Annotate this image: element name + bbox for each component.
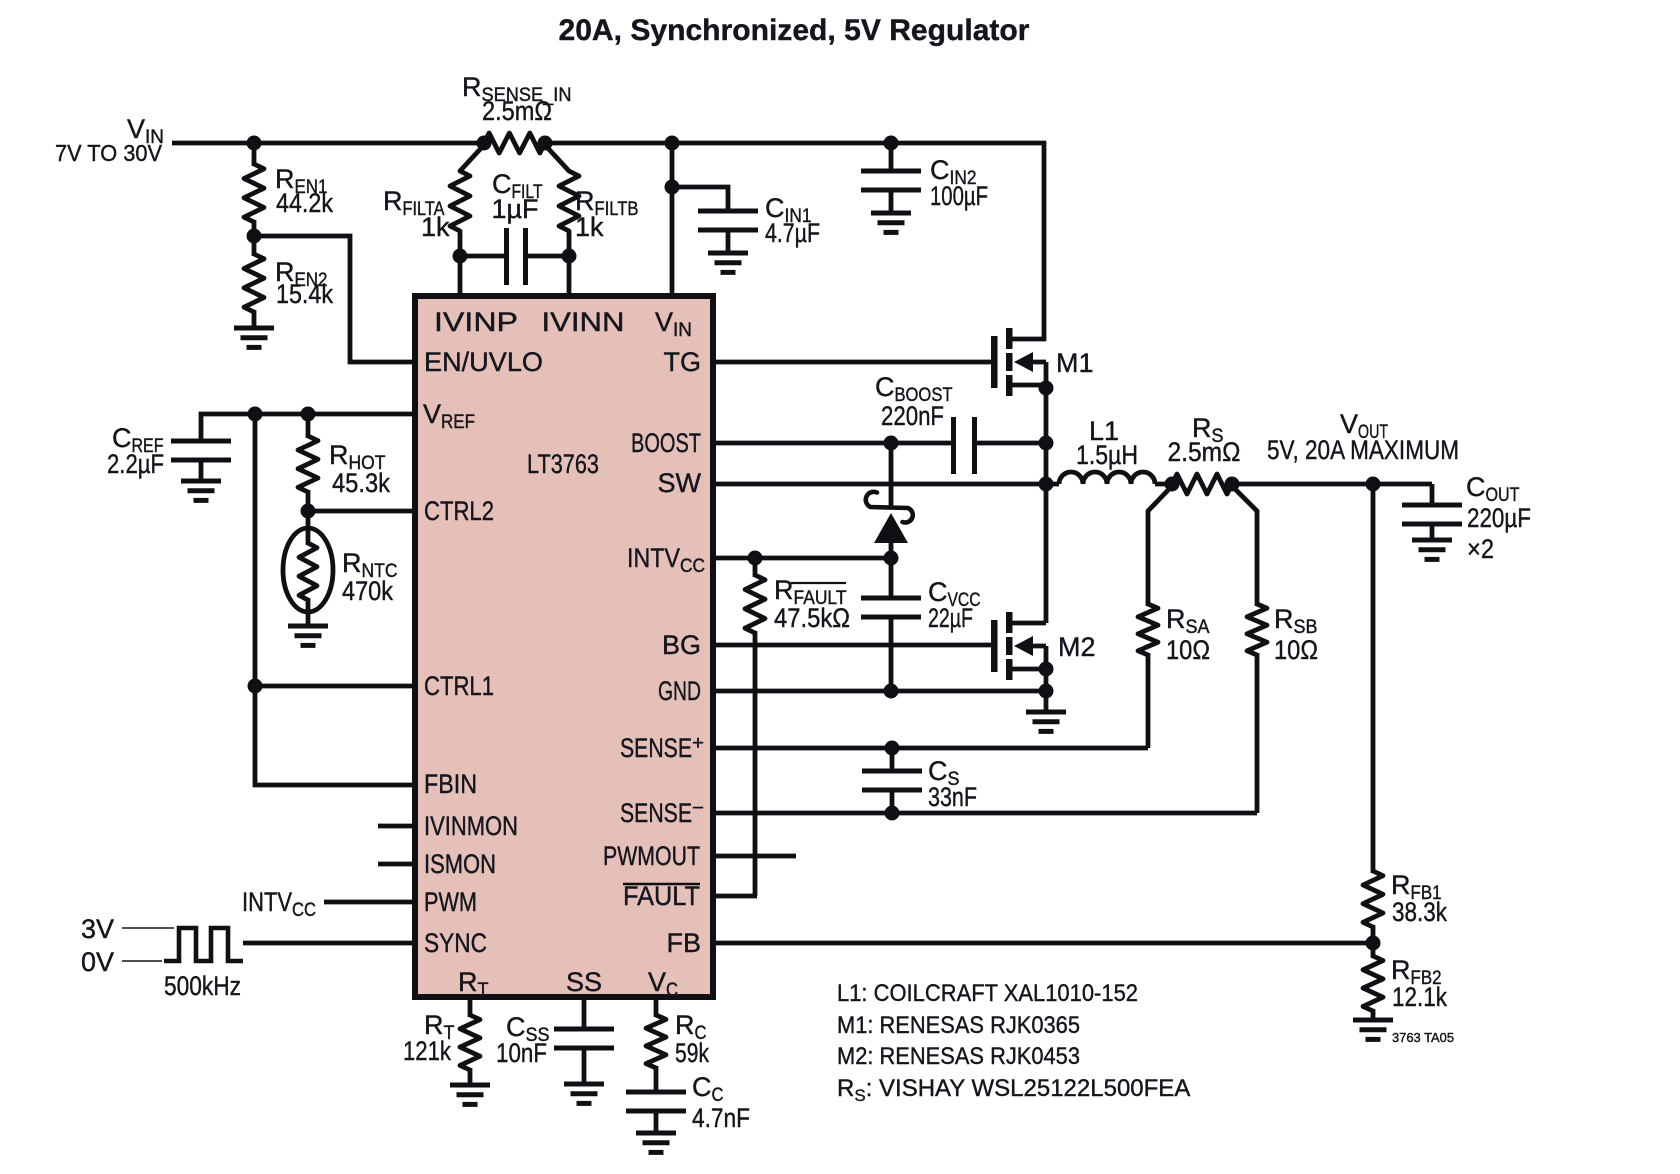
wire M1 drain drop bbox=[1042, 141, 1047, 341]
svg-text:CTRL1: CTRL1 bbox=[424, 671, 494, 701]
svg-text:SS: SS bbox=[566, 967, 602, 997]
resistor RFILTB bbox=[545, 145, 579, 258]
label 3V bbox=[81, 914, 114, 944]
wire VREF bbox=[201, 414, 415, 441]
label CBOOST bbox=[875, 372, 953, 431]
wire VOUT to RFB1 bbox=[1371, 484, 1376, 873]
label REN2 bbox=[275, 257, 333, 309]
svg-text:CTRL2: CTRL2 bbox=[424, 496, 494, 526]
wire FAULT bbox=[713, 894, 757, 899]
resistor RS bbox=[1172, 474, 1232, 494]
title bbox=[559, 14, 1030, 47]
svg-text:500kHz: 500kHz bbox=[164, 971, 241, 1001]
ground at M2 source bbox=[1026, 691, 1066, 731]
svg-text:SENSE−: SENSE− bbox=[620, 798, 704, 828]
label RHOT bbox=[329, 440, 390, 498]
junction CTRL1 bbox=[248, 679, 263, 694]
svg-text:38.3k: 38.3k bbox=[1392, 897, 1447, 927]
wire IVINP bbox=[458, 254, 463, 298]
pin label BG bbox=[662, 630, 701, 660]
wire VREF/CTRL1/FBIN bus bbox=[255, 414, 415, 785]
svg-text:IVINP: IVINP bbox=[434, 307, 518, 337]
resistor RFB2 bbox=[1363, 943, 1383, 1020]
capacitor CIN1 bbox=[698, 211, 758, 230]
label REN1 bbox=[275, 164, 333, 218]
svg-text:RSA: RSA bbox=[1166, 604, 1210, 638]
svg-text:0V: 0V bbox=[81, 947, 114, 977]
wire SYNC bbox=[243, 941, 415, 946]
svg-text:L1: COILCRAFT XAL1010-152: L1: COILCRAFT XAL1010-152 bbox=[837, 980, 1138, 1007]
svg-text:10Ω: 10Ω bbox=[1166, 635, 1210, 665]
label CIN1 bbox=[765, 193, 820, 248]
pin label IVINN bbox=[542, 307, 625, 337]
junction CBOOST right bbox=[1039, 436, 1054, 451]
pin label PWMOUT bbox=[603, 841, 700, 871]
label RT bbox=[403, 1010, 455, 1066]
junction node EN divider bbox=[247, 229, 262, 244]
label CIN2 bbox=[930, 155, 988, 211]
svg-text:3763 TA05: 3763 TA05 bbox=[1392, 1030, 1454, 1045]
svg-text:1k: 1k bbox=[575, 212, 604, 242]
svg-text:PWM: PWM bbox=[424, 887, 477, 917]
svg-text:IVINMON: IVINMON bbox=[424, 811, 518, 841]
junction dots on VIN rail bbox=[247, 136, 899, 151]
svg-text:44.2k: 44.2k bbox=[276, 188, 333, 218]
svg-text:INTVCC: INTVCC bbox=[242, 887, 316, 921]
label CSS bbox=[496, 1012, 550, 1068]
junction FB node bbox=[1366, 936, 1381, 951]
label L1 bbox=[1076, 416, 1138, 470]
wire CIN1 tap bbox=[672, 187, 728, 211]
junction INTVCC dots bbox=[748, 551, 899, 566]
pin label SS bbox=[566, 967, 602, 997]
junction CVCC gnd bbox=[884, 684, 899, 699]
label RFAULT bbox=[774, 575, 850, 633]
wire BOOST bbox=[713, 441, 954, 446]
capacitor CC bbox=[626, 1092, 686, 1133]
IC name label LT3763 bbox=[527, 449, 599, 479]
pin label VC bbox=[648, 967, 678, 1001]
label 500kHz bbox=[164, 971, 241, 1001]
wire FB bbox=[713, 941, 1375, 946]
resistor RFB1 bbox=[1363, 871, 1383, 943]
node VIN input label bbox=[55, 114, 164, 166]
label RFB1 bbox=[1391, 870, 1447, 927]
svg-text:SENSE+: SENSE+ bbox=[620, 733, 704, 763]
wire SENSE+ bbox=[713, 746, 1148, 751]
svg-text:PWMOUT: PWMOUT bbox=[603, 841, 700, 871]
junction dots CFILT bbox=[453, 249, 577, 264]
ground below RFB2 bbox=[1353, 1020, 1393, 1039]
ground below CC bbox=[636, 1133, 676, 1152]
svg-text:RS: VISHAY WSL25122L500FEA: RS: VISHAY WSL25122L500FEA bbox=[837, 1075, 1190, 1105]
capacitor CS bbox=[862, 748, 922, 813]
svg-text:15.4k: 15.4k bbox=[276, 279, 333, 309]
svg-text:TG: TG bbox=[664, 347, 702, 377]
svg-text:FAULT: FAULT bbox=[623, 881, 700, 911]
label CREF bbox=[107, 423, 164, 479]
svg-text:SYNC: SYNC bbox=[424, 928, 487, 958]
svg-text:3V: 3V bbox=[81, 914, 114, 944]
svg-text:ISMON: ISMON bbox=[424, 849, 496, 879]
svg-text:IVINN: IVINN bbox=[542, 307, 625, 337]
label CVCC bbox=[928, 577, 981, 633]
pin label TG bbox=[664, 347, 702, 377]
ground below CREF bbox=[181, 460, 221, 500]
label RS bbox=[1168, 413, 1241, 467]
ground below RT bbox=[450, 1085, 490, 1104]
wire M1-M2 leg bbox=[1044, 443, 1049, 623]
label RFILTB bbox=[575, 186, 639, 242]
diode DB anode wire bbox=[889, 443, 894, 560]
pin label IVINP bbox=[434, 307, 518, 337]
junction dots VREF line bbox=[248, 407, 316, 422]
junction RS right bbox=[1225, 477, 1240, 492]
resistor REN1 bbox=[244, 143, 264, 238]
label CS bbox=[928, 756, 977, 812]
square-wave sync source bbox=[122, 928, 243, 961]
pin label CTRL2 bbox=[424, 496, 494, 526]
pin label SENSE+ bbox=[620, 733, 704, 763]
svg-text:LT3763: LT3763 bbox=[527, 449, 599, 479]
pin label CTRL1 bbox=[424, 671, 494, 701]
wire VOUT bbox=[1232, 482, 1432, 487]
wire PWM bbox=[324, 900, 415, 905]
svg-text:2.2µF: 2.2µF bbox=[107, 449, 164, 479]
resistor RT bbox=[460, 997, 480, 1085]
svg-text:BG: BG bbox=[662, 630, 701, 660]
svg-text:1k: 1k bbox=[421, 212, 450, 242]
capacitor CREF bbox=[171, 441, 231, 460]
pin label SW bbox=[658, 468, 702, 498]
svg-text:45.3k: 45.3k bbox=[332, 468, 390, 498]
capacitor CVCC bbox=[861, 558, 921, 691]
pin label EN/UVLO bbox=[424, 347, 543, 377]
ground below COUT bbox=[1412, 540, 1452, 559]
svg-text:1µF: 1µF bbox=[491, 194, 538, 224]
label COUT bbox=[1466, 472, 1531, 564]
ground below CIN1 bbox=[708, 230, 748, 272]
pin label VIN (IC) bbox=[655, 307, 692, 341]
svg-text:59k: 59k bbox=[675, 1038, 709, 1068]
svg-text:10nF: 10nF bbox=[496, 1038, 547, 1068]
svg-text:12.1k: 12.1k bbox=[1392, 982, 1447, 1012]
svg-text:×2: ×2 bbox=[1467, 534, 1494, 564]
svg-text:RSB: RSB bbox=[1274, 604, 1318, 638]
label RFILTA bbox=[383, 186, 450, 242]
junction M1 source bbox=[1039, 381, 1054, 396]
wire CTRL1 bbox=[255, 684, 415, 689]
svg-text:GND: GND bbox=[658, 676, 701, 706]
label INTVCC at PWM bbox=[242, 887, 316, 921]
resistor RC bbox=[646, 997, 666, 1092]
pin label GND bbox=[658, 676, 701, 706]
wire ISMON stub bbox=[378, 862, 415, 867]
pin label SENSE- bbox=[620, 798, 704, 828]
svg-text:121k: 121k bbox=[403, 1036, 451, 1066]
svg-text:M1: RENESAS RJK0365: M1: RENESAS RJK0365 bbox=[837, 1012, 1080, 1039]
wire VIN pin drop bbox=[670, 143, 675, 298]
capacitor CFILT bbox=[460, 228, 569, 285]
capacitor COUT bbox=[1402, 484, 1462, 540]
inductor L1 bbox=[1044, 472, 1172, 484]
label 0V bbox=[81, 947, 114, 977]
label RSB bbox=[1274, 604, 1318, 665]
wire GND bbox=[713, 689, 1046, 694]
svg-text:M1: M1 bbox=[1056, 348, 1094, 378]
wire TG bbox=[713, 360, 993, 365]
junction BOOST diode tap bbox=[884, 436, 899, 451]
junction RS left bbox=[1165, 477, 1180, 492]
transistor M1 bbox=[991, 328, 1046, 396]
junction CTRL2 bbox=[301, 504, 316, 519]
label M1 bbox=[1056, 348, 1094, 378]
resistor RFAULT bbox=[745, 558, 765, 896]
svg-text:22µF: 22µF bbox=[928, 603, 973, 633]
svg-text:20A, Synchronized, 5V Regulato: 20A, Synchronized, 5V Regulator bbox=[559, 14, 1030, 47]
pin label VREF bbox=[423, 399, 475, 433]
svg-text:M2: RENESAS RJK0453: M2: RENESAS RJK0453 bbox=[837, 1043, 1080, 1070]
resistor RSA bbox=[1138, 486, 1172, 748]
svg-text:COUT: COUT bbox=[1466, 472, 1520, 506]
wire INTVCC bbox=[713, 556, 891, 561]
pin label FAULT (overbar) bbox=[623, 881, 700, 911]
svg-text:EN/UVLO: EN/UVLO bbox=[424, 347, 543, 377]
svg-text:SW: SW bbox=[658, 468, 702, 498]
wire M1 source bbox=[1044, 362, 1049, 445]
label CC bbox=[692, 1072, 750, 1133]
svg-text:470k: 470k bbox=[342, 576, 393, 606]
thermistor RNTC bbox=[283, 511, 333, 626]
IC U1 LT3763 body bbox=[415, 296, 713, 997]
pin label FB bbox=[666, 928, 701, 958]
junction M2 gnd bbox=[1039, 684, 1054, 699]
wire SW bbox=[713, 482, 1046, 487]
label 3763 TA05 bbox=[1392, 1030, 1454, 1045]
label CFILT bbox=[491, 169, 542, 224]
junction M2 source bbox=[1039, 662, 1054, 677]
junction VOUT node bbox=[1366, 477, 1381, 492]
wire M2 source bbox=[1044, 646, 1049, 691]
wire SENSE- bbox=[713, 811, 1257, 816]
resistor RSB bbox=[1232, 486, 1267, 813]
junction CS top bbox=[885, 741, 900, 756]
junction SW node bbox=[1039, 477, 1054, 492]
svg-text:FB: FB bbox=[666, 928, 701, 958]
ground below CIN2 bbox=[871, 190, 911, 232]
pin label ISMON bbox=[424, 849, 496, 879]
ground below CSS bbox=[564, 1084, 604, 1103]
pin label INTVCC (IC) bbox=[627, 543, 705, 577]
resistor RHOT bbox=[298, 414, 318, 513]
wire CIN2 stub bbox=[889, 143, 894, 171]
svg-text:220nF: 220nF bbox=[881, 401, 944, 431]
svg-text:2.5mΩ: 2.5mΩ bbox=[482, 96, 552, 126]
diode DB bbox=[866, 492, 913, 543]
svg-text:100µF: 100µF bbox=[930, 181, 988, 211]
svg-text:BOOST: BOOST bbox=[631, 428, 701, 458]
svg-text:FBIN: FBIN bbox=[424, 769, 477, 799]
svg-text:CC: CC bbox=[692, 1072, 724, 1106]
resistor RFILTA bbox=[450, 145, 484, 258]
svg-text:220µF: 220µF bbox=[1467, 503, 1531, 533]
junction CIN1 tap bbox=[665, 180, 680, 195]
pin label IVINMON bbox=[424, 811, 518, 841]
wire PWMOUT stub bbox=[713, 854, 796, 859]
label RSENSE_IN bbox=[462, 72, 572, 126]
svg-text:7V TO 30V: 7V TO 30V bbox=[55, 140, 163, 166]
label RFB2 bbox=[1391, 955, 1447, 1012]
pin label PWM bbox=[424, 887, 477, 917]
svg-text:2.5mΩ: 2.5mΩ bbox=[1168, 437, 1241, 467]
svg-text:33nF: 33nF bbox=[928, 782, 977, 812]
capacitor CIN2 bbox=[861, 171, 921, 190]
label RNTC bbox=[342, 548, 398, 606]
svg-text:4.7nF: 4.7nF bbox=[692, 1103, 750, 1133]
svg-text:M2: M2 bbox=[1058, 632, 1096, 662]
pin label FBIN bbox=[424, 769, 477, 799]
svg-text:5V, 20A MAXIMUM: 5V, 20A MAXIMUM bbox=[1267, 435, 1459, 465]
resistor REN2 bbox=[244, 236, 264, 327]
wire IVINMON stub bbox=[378, 824, 415, 829]
label RC bbox=[675, 1010, 709, 1068]
transistor M2 bbox=[991, 612, 1046, 680]
svg-text:10Ω: 10Ω bbox=[1274, 635, 1318, 665]
capacitor CBOOST bbox=[954, 417, 1047, 474]
pin label BOOST bbox=[631, 428, 701, 458]
resistor RSENSE_IN bbox=[484, 133, 545, 153]
ground below RNTC bbox=[288, 626, 328, 645]
wire EN/UVLO bbox=[254, 236, 415, 362]
junction CS bottom bbox=[885, 806, 900, 821]
note parts list bbox=[837, 980, 1190, 1105]
wire IVINN bbox=[567, 254, 572, 298]
label M2 bbox=[1058, 632, 1096, 662]
pin label SYNC bbox=[424, 928, 487, 958]
pin label RT bbox=[458, 967, 489, 1001]
wire VIN rail bbox=[172, 141, 1046, 146]
label RSA bbox=[1166, 604, 1210, 665]
svg-text:1.5µH: 1.5µH bbox=[1076, 440, 1138, 470]
svg-text:47.5kΩ: 47.5kΩ bbox=[774, 603, 850, 633]
wire BG bbox=[713, 643, 993, 648]
wire CTRL2 bbox=[308, 509, 415, 514]
ground below REN2 bbox=[234, 328, 274, 347]
svg-text:4.7µF: 4.7µF bbox=[765, 218, 820, 248]
label VOUT bbox=[1267, 409, 1459, 465]
capacitor CSS bbox=[554, 997, 614, 1084]
